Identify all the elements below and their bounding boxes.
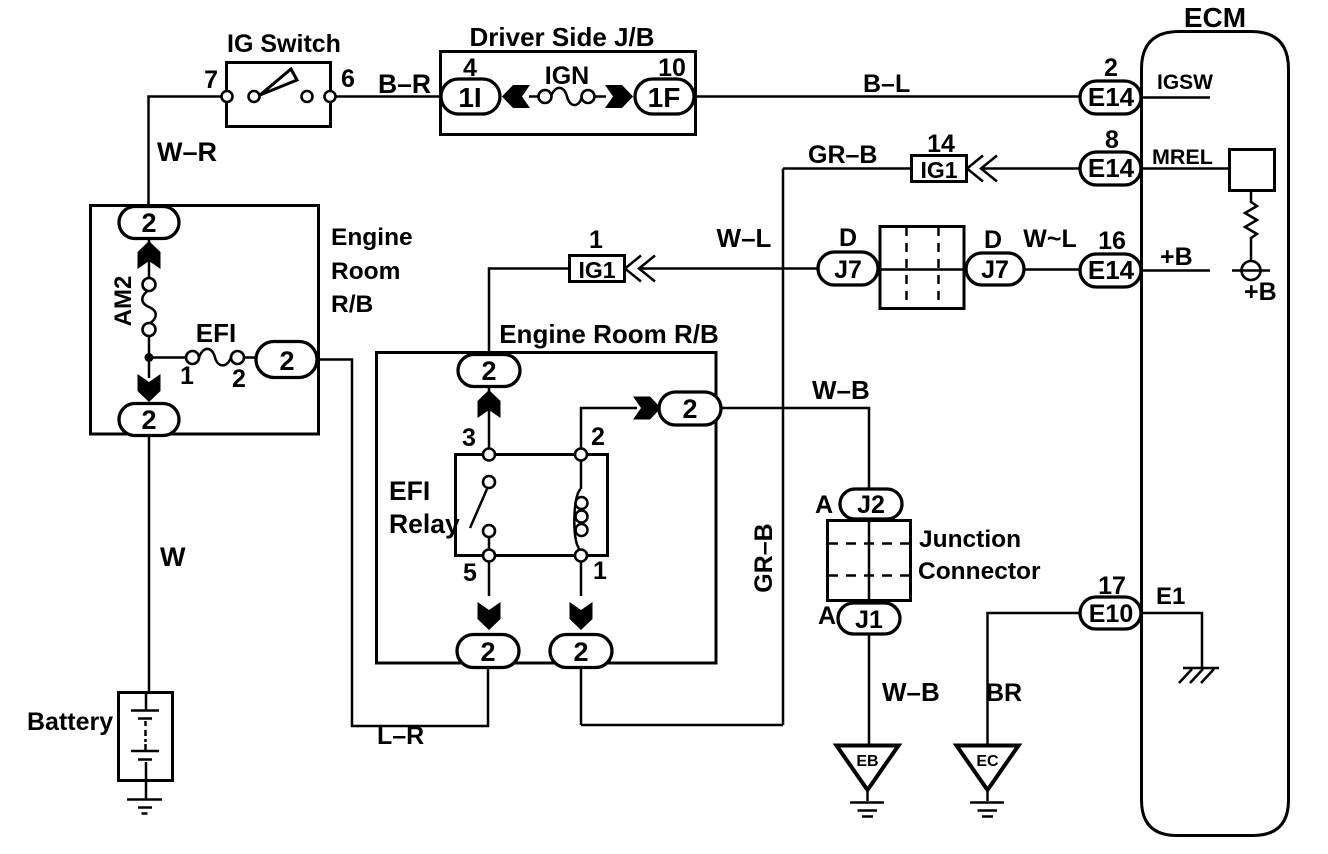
connector J2 oval [840, 489, 902, 519]
svg-text:EB: EB [856, 753, 878, 770]
svg-text:GR–B: GR–B [808, 141, 877, 169]
wire GR-B horizontal [783, 167, 911, 170]
Engine Room R/B box (left) [91, 206, 319, 435]
fuse EFI [199, 349, 231, 366]
ground triangle EB [837, 746, 899, 791]
ECM internal relay square [1230, 150, 1275, 191]
wire B-R [336, 95, 441, 98]
wire W-R horizontal to IG switch [149, 97, 222, 207]
svg-text:ECM: ECM [1184, 2, 1246, 33]
svg-text:W–L: W–L [717, 223, 772, 253]
svg-text:6: 6 [341, 65, 355, 93]
fuse IGN [551, 88, 582, 105]
connector 2 oval (bottom right) [550, 635, 612, 668]
connector E14 oval (MREL) [1080, 152, 1141, 185]
wire L-R path [317, 360, 488, 727]
connector 2 oval (bottom) [119, 404, 179, 436]
svg-text:J7: J7 [981, 256, 1009, 284]
arrow right (into 1F) [605, 85, 633, 108]
wire pin 1 down [580, 561, 583, 596]
svg-text:2: 2 [480, 637, 495, 667]
Battery box [119, 693, 173, 781]
fuse box IG1 (1) [570, 256, 625, 282]
svg-text:AM2: AM2 [110, 276, 137, 327]
svg-text:7: 7 [204, 66, 218, 94]
arrow down (pin 1) [570, 602, 593, 630]
svg-text:W~L: W~L [1023, 225, 1076, 253]
battery cells [145, 692, 148, 710]
relay pin circles [483, 449, 495, 461]
svg-text:Junction: Junction [919, 526, 1021, 553]
svg-text:1F: 1F [648, 82, 681, 113]
Engine Room R/B box (relay) [377, 353, 717, 664]
wire pin 5 down [488, 561, 491, 596]
EFI relay box [456, 455, 608, 556]
svg-text:+B: +B [1244, 278, 1277, 306]
svg-text:Connector: Connector [918, 558, 1041, 585]
svg-text:W–B: W–B [882, 677, 940, 707]
wire AM2 to node [148, 335, 151, 378]
svg-text:2: 2 [682, 394, 697, 424]
wire bottom right oval to GR-B [580, 668, 583, 725]
svg-text:IG1: IG1 [920, 157, 957, 183]
svg-text:16: 16 [1098, 227, 1126, 255]
svg-text:MREL: MREL [1152, 145, 1213, 169]
svg-text:EFI: EFI [196, 318, 236, 348]
svg-text:W–B: W–B [812, 375, 870, 405]
wire W-L right segment [640, 267, 819, 270]
relay coil [580, 460, 583, 489]
chevrons after IG1 (1) [625, 256, 641, 282]
fuse IGN wire [529, 95, 540, 98]
wire W-L left segment [489, 269, 569, 355]
svg-text:E14: E14 [1088, 82, 1135, 112]
svg-text:J2: J2 [857, 491, 885, 519]
chassis ground (E1) [1183, 667, 1219, 670]
wire W~L [1024, 268, 1081, 271]
svg-text:1I: 1I [458, 82, 481, 113]
svg-text:J7: J7 [834, 256, 862, 284]
svg-text:A: A [815, 491, 833, 519]
svg-text:L–R: L–R [377, 722, 424, 750]
ground triangle EC [957, 746, 1019, 791]
+B internal wire [1142, 269, 1210, 272]
wire to relay pin 3 [488, 388, 491, 449]
fuse box IG1 (14) [912, 156, 967, 182]
IG Switch box [227, 63, 331, 127]
IG switch lever [260, 69, 297, 95]
svg-text:EFI: EFI [389, 476, 430, 506]
connector 1I oval [441, 79, 500, 114]
arrow up (AM2 top) [138, 241, 161, 269]
arrow up (relay input) [478, 390, 501, 418]
svg-text:3: 3 [462, 424, 476, 452]
junction block J7 [880, 227, 964, 309]
connector 2 oval (EFI out) [256, 342, 317, 378]
relay switch [470, 489, 487, 528]
svg-text:D: D [984, 226, 1002, 254]
svg-text:2: 2 [141, 208, 156, 238]
arrow down (pin 5) [478, 602, 501, 630]
connector 2 oval (relay out right) [659, 392, 721, 425]
svg-text:5: 5 [463, 559, 477, 587]
svg-text:2: 2 [481, 356, 496, 386]
fuse AM2 [142, 290, 156, 324]
svg-text:Engine Room R/B: Engine Room R/B [499, 319, 719, 349]
resistor (ECM internal) [1245, 191, 1257, 263]
svg-text:W: W [160, 542, 186, 572]
svg-text:2: 2 [141, 405, 156, 435]
connector J7 oval (left) [818, 252, 878, 285]
svg-text:GR–B: GR–B [750, 523, 778, 592]
arrow down (to bottom 2 oval) [138, 374, 161, 402]
chevrons after IG1 (14) [967, 156, 983, 182]
svg-text:Room: Room [331, 258, 400, 285]
svg-text:D: D [839, 224, 857, 252]
wire GR-B vertical [782, 169, 785, 726]
svg-text:Driver Side J/B: Driver Side J/B [470, 22, 655, 52]
wire J1 to EB [868, 634, 871, 745]
svg-text:IGN: IGN [545, 62, 589, 90]
svg-text:1: 1 [180, 362, 194, 390]
arrow left (into 1I) [502, 85, 530, 108]
E1 internal wire [1142, 613, 1202, 667]
svg-text:2: 2 [279, 346, 294, 376]
wire AM2 [148, 239, 151, 278]
connector 2 oval (relay top) [458, 355, 520, 387]
svg-text:IG Switch: IG Switch [227, 30, 341, 58]
svg-text:E1: E1 [1156, 583, 1185, 610]
MREL internal wire [1142, 167, 1230, 170]
wire BR [988, 613, 1082, 746]
svg-text:Relay: Relay [389, 509, 460, 539]
wire W to battery [148, 436, 151, 693]
svg-text:2: 2 [1104, 54, 1118, 82]
svg-text:2: 2 [573, 637, 588, 667]
wire pin2 up to oval [581, 408, 637, 448]
wire MREL (E14 to chevrons) [982, 167, 1081, 170]
svg-text:2: 2 [591, 423, 605, 451]
svg-text:E14: E14 [1088, 255, 1135, 285]
svg-text:EC: EC [976, 753, 999, 770]
svg-text:Engine: Engine [331, 224, 413, 251]
junction connector box [828, 521, 911, 601]
connector 1F oval [635, 79, 694, 114]
svg-text:E14: E14 [1088, 153, 1135, 183]
IG switch terminal circles [222, 91, 233, 102]
connector E14 oval (+B) [1080, 254, 1141, 287]
connector E10 oval [1080, 597, 1141, 629]
svg-text:IGSW: IGSW [1157, 71, 1213, 94]
wire EFI to oval [244, 356, 256, 359]
svg-text:W–R: W–R [157, 137, 217, 167]
svg-text:E10: E10 [1089, 600, 1133, 628]
connector E14 oval (IGSW) [1080, 81, 1141, 114]
connector 2 oval (bottom left) [457, 635, 519, 668]
connector 2 oval (top) [119, 207, 179, 239]
wire GR-B bottom horizontal [581, 724, 783, 727]
wire EFI fuse left [149, 356, 187, 359]
wire W-B [721, 408, 869, 490]
svg-text:A: A [818, 602, 836, 630]
connector J1 oval [838, 603, 900, 634]
Driver Side J/B box [441, 52, 696, 135]
svg-text:B–R: B–R [378, 69, 431, 99]
IGSW internal wire [1142, 96, 1210, 99]
junction node [145, 353, 154, 362]
svg-text:R/B: R/B [331, 291, 373, 318]
svg-text:J1: J1 [855, 606, 883, 634]
connector J7 oval (right) [966, 253, 1024, 285]
svg-text:+B: +B [1160, 243, 1193, 271]
arrow right (relay out) [633, 397, 661, 420]
svg-text:14: 14 [927, 130, 955, 158]
svg-text:1: 1 [589, 226, 603, 254]
ECM box [1142, 32, 1289, 836]
svg-text:8: 8 [1105, 126, 1119, 154]
svg-text:1: 1 [593, 557, 607, 585]
svg-text:IG1: IG1 [578, 257, 615, 283]
svg-text:B–L: B–L [863, 70, 910, 98]
svg-text:Battery: Battery [27, 708, 113, 736]
ground (battery) [127, 798, 162, 801]
+B circle symbol [1242, 261, 1261, 280]
svg-text:2: 2 [232, 365, 246, 393]
wire B-L [694, 95, 1081, 98]
svg-text:BR: BR [986, 679, 1022, 707]
